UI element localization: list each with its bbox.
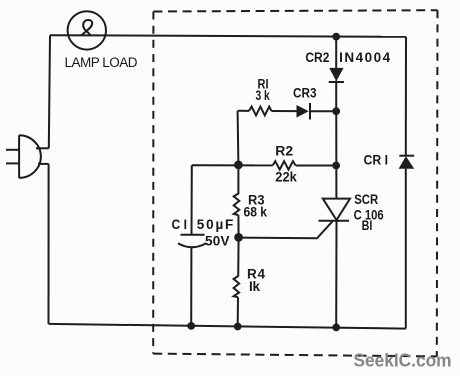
plug stub wire upper [36, 147, 49, 149]
svg-text:50µF: 50µF [197, 217, 234, 232]
SCR cathode bar [319, 220, 350, 222]
dashed enclosure bottom [153, 354, 437, 357]
junction dot SCR bottom [332, 324, 340, 332]
SCR triangle [323, 199, 350, 220]
wire right rail lower [405, 169, 407, 329]
svg-text:3 k: 3 k [256, 88, 271, 103]
SCR gate wire [239, 221, 333, 238]
svg-text:22k: 22k [275, 169, 297, 184]
plug stub wire lower [38, 163, 49, 165]
plug P1 body [19, 135, 41, 178]
wire right rail upper [405, 37, 407, 157]
junction dot R2 left [234, 161, 243, 170]
wire C1 bottom [190, 247, 192, 326]
svg-text:IN4004: IN4004 [339, 50, 390, 65]
wire R3 bottom lead [237, 215, 239, 237]
wire mid rail lower [335, 221, 337, 328]
diode CR1 cathode bar [399, 155, 414, 157]
wire R4 bottom lead [237, 297, 239, 326]
resistor R2 [273, 161, 296, 169]
dashed enclosure top [153, 10, 437, 11]
resistor R3 [234, 194, 240, 216]
wire R3 top lead [237, 165, 239, 194]
diode CR3 cathode bar [309, 103, 311, 120]
wire left rail lower [48, 164, 50, 324]
svg-text:BI: BI [362, 218, 373, 233]
resistor R1 [249, 107, 272, 116]
wire top rail [50, 35, 406, 37]
svg-text:Ik: Ik [249, 279, 260, 294]
wire bottom rail [49, 324, 406, 329]
lamp filament loop [81, 20, 92, 36]
wire R4 top lead [237, 237, 239, 276]
wire R2 to mid rail [296, 165, 336, 167]
svg-text:R2: R2 [275, 144, 293, 159]
lamp LAMP LOAD bulb [68, 11, 106, 49]
diode CR3 triangle [297, 105, 309, 118]
dashed enclosure right [436, 10, 439, 356]
svg-text:SCR: SCR [354, 192, 378, 207]
junction dot CR3 row [332, 107, 340, 115]
svg-text:68 k: 68 k [244, 204, 268, 219]
junction dot gate node [234, 233, 243, 242]
wire mid rail upper [335, 37, 337, 69]
svg-text:LAMP LOAD: LAMP LOAD [65, 55, 138, 70]
junction dot top rail [332, 33, 340, 41]
junction dot R4 bottom [234, 323, 242, 331]
svg-text:50V: 50V [205, 234, 230, 249]
wire R2 row left [192, 164, 273, 166]
svg-text:CR2: CR2 [305, 50, 329, 65]
wire mid rail center [335, 81, 337, 199]
svg-text:CR I: CR I [364, 153, 389, 168]
wire CR3 to mid rail [310, 110, 336, 112]
diode CR2 cathode bar [329, 81, 344, 83]
svg-text:C I: C I [172, 217, 188, 232]
svg-text:SeekIC.com: SeekIC.com [354, 351, 452, 371]
junction dot C1 bottom [187, 322, 195, 330]
diode CR1 triangle [399, 156, 415, 169]
capacitor C1 top plate [181, 234, 205, 236]
wire R1 branch left corner [238, 110, 249, 112]
capacitor C1 curved plate [178, 243, 206, 247]
wire R1 to CR3 [272, 110, 297, 112]
plug prong upper [6, 149, 19, 151]
diode CR2 triangle [329, 68, 343, 81]
dashed enclosure left [152, 12, 154, 354]
wire left rail upper [49, 35, 50, 148]
plug prong lower [6, 162, 19, 164]
wire R1 left vertical [237, 111, 240, 165]
svg-text:CR3: CR3 [293, 86, 317, 101]
wire C1 top [191, 165, 193, 235]
junction dot R2 right [332, 162, 340, 170]
resistor R4 [234, 276, 240, 297]
